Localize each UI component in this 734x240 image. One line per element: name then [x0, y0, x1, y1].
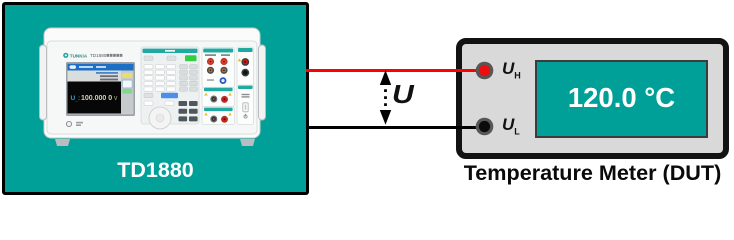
brand logo TUNKIA — [63, 53, 88, 59]
right handle — [259, 45, 266, 120]
power button — [66, 121, 83, 126]
keypad panel — [141, 47, 199, 129]
terminal group C — [202, 87, 235, 106]
enter key (blue) — [161, 93, 178, 98]
node label U — [392, 81, 414, 110]
left foot — [55, 139, 70, 146]
screen — [66, 62, 135, 116]
left handle — [40, 45, 47, 120]
label TD1880 — [2, 159, 309, 181]
svg-text:TD1880: TD1880 — [90, 53, 107, 58]
lower small keys — [144, 93, 153, 97]
screen side keys — [121, 71, 134, 114]
terminal U_H (red binding post) — [474, 60, 495, 81]
svg-text:100.000 0: 100.000 0 — [81, 95, 112, 102]
power inlet column — [237, 85, 254, 124]
caption Temperature Meter (DUT) — [454, 160, 731, 186]
DUT display — [535, 60, 708, 138]
dark key grid — [179, 101, 198, 121]
model text TD1880 (front panel) — [90, 53, 122, 58]
DUT box (Temperature Meter) — [456, 38, 729, 159]
label UH — [502, 59, 521, 80]
wire black (U_L lead) — [306, 126, 478, 129]
green key — [185, 55, 197, 61]
terminal group A (main output posts) — [202, 48, 235, 88]
right foot — [240, 139, 255, 146]
label UL — [502, 115, 520, 136]
display reading 120.0 °C — [535, 59, 708, 137]
wire red (U_H lead) — [306, 69, 478, 72]
numeric keypad — [144, 65, 176, 92]
calibrator box TD1880 (teal panel) — [2, 2, 309, 195]
terminal group B (aux posts) — [237, 47, 254, 88]
svg-text:U_:: U_: — [71, 95, 81, 103]
rotary knob — [149, 107, 171, 129]
instrument case — [44, 28, 260, 138]
terminal U_L (black binding post) — [474, 116, 495, 137]
svg-text:TUNKIA: TUNKIA — [70, 53, 88, 58]
function keys row — [144, 56, 153, 61]
terminal group D — [202, 107, 235, 124]
measurement arrow U (double-headed, dotted shaft) — [374, 66, 398, 130]
